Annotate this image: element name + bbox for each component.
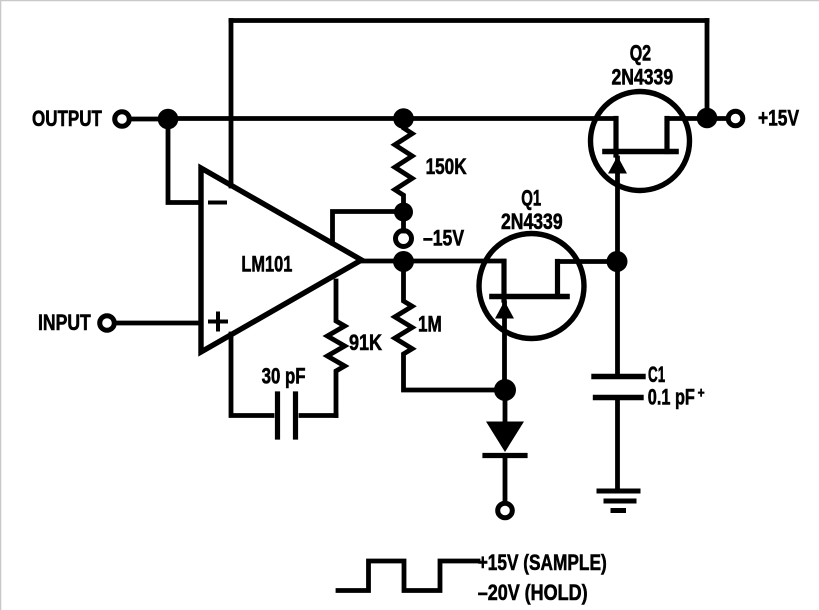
svg-text:2N4339: 2N4339 xyxy=(612,66,674,90)
wire feedback top rail xyxy=(231,18,707,23)
diode CR1 anode lead xyxy=(503,390,508,421)
svg-text:Q2: Q2 xyxy=(630,42,651,66)
svg-text:0.1 pF: 0.1 pF xyxy=(648,385,695,410)
capacitor C1 bottom plate xyxy=(596,395,642,400)
wire C1 to ground xyxy=(615,398,620,490)
svg-text:1M: 1M xyxy=(418,313,442,338)
node output junction xyxy=(158,109,179,130)
ground bar 2 xyxy=(606,499,634,504)
Q2 left bar xyxy=(613,119,618,156)
terminal -15V xyxy=(396,231,412,247)
wire output rail xyxy=(168,116,616,121)
wire 30pF to 91K xyxy=(301,413,336,418)
node gate-diode junction xyxy=(494,379,516,401)
waveform sample-hold control xyxy=(338,561,478,591)
svg-text:+15V: +15V xyxy=(758,107,800,131)
wire Q2 to +15V node xyxy=(667,116,707,121)
wire op-amp to 30pF xyxy=(231,334,272,416)
node hold junction xyxy=(607,251,628,272)
svg-text:+: + xyxy=(698,384,705,401)
wire hold node to C1 xyxy=(615,260,620,374)
page border top edge xyxy=(0,0,819,2)
svg-text:–15V: –15V xyxy=(423,227,465,251)
wire feedback right drop to +15V node xyxy=(705,21,710,119)
diode CR1 triangle xyxy=(486,422,524,453)
terminal -15V stem xyxy=(401,212,406,231)
op-amp U1 LM101 xyxy=(201,168,362,352)
ground bar 3 xyxy=(613,508,624,513)
svg-text:Q1: Q1 xyxy=(521,186,541,211)
terminal +15V xyxy=(728,111,743,126)
node 150K bottom junction xyxy=(394,203,413,222)
wire feedback left drop to op-amp top edge xyxy=(229,21,234,187)
wire OUTPUT lead xyxy=(131,117,168,122)
node 150K top junction xyxy=(393,108,414,129)
Q2 gate arrow xyxy=(608,156,627,174)
transistor Q2 body xyxy=(591,92,690,191)
svg-text:OUTPUT: OUTPUT xyxy=(32,107,102,132)
op-amp plus sign xyxy=(210,314,226,330)
svg-text:30 pF: 30 pF xyxy=(262,364,306,389)
capacitor 30pF left plate xyxy=(275,394,280,437)
wire op-amp output xyxy=(361,259,504,264)
svg-text:+15V (SAMPLE): +15V (SAMPLE) xyxy=(478,551,607,575)
Q1 left bar xyxy=(501,262,506,301)
Q2 right bar xyxy=(664,119,669,152)
wire Q1 drain xyxy=(558,259,618,264)
svg-text:91K: 91K xyxy=(349,332,383,356)
resistor 1M xyxy=(395,262,505,391)
diode CR1 cathode bar xyxy=(485,453,525,458)
Q2 gate line xyxy=(615,158,620,260)
Q1 right bar xyxy=(555,262,560,297)
Q1 gate line xyxy=(502,303,507,390)
wire comp to op-amp top edge xyxy=(333,212,404,244)
diode CR1 cathode lead xyxy=(503,456,508,503)
wire +15V lead xyxy=(707,116,728,121)
capacitor C1 top plate xyxy=(594,374,643,379)
wire inverting input xyxy=(168,119,199,203)
resistor 91K xyxy=(327,281,344,416)
terminal control input xyxy=(498,503,513,518)
terminal OUTPUT xyxy=(115,112,130,127)
svg-text:C1: C1 xyxy=(648,363,665,387)
wire noninverting input xyxy=(116,321,201,326)
capacitor 30pF right plate xyxy=(293,394,298,437)
Q1 channel bar xyxy=(492,294,567,300)
Q1 gate arrow xyxy=(495,301,514,319)
op-amp minus sign xyxy=(210,201,225,205)
ground bar 1 xyxy=(599,489,638,494)
svg-text:150K: 150K xyxy=(426,155,468,180)
terminal INPUT xyxy=(100,316,115,331)
svg-text:LM101: LM101 xyxy=(241,252,292,277)
Q2 channel bar xyxy=(605,149,676,155)
svg-text:INPUT: INPUT xyxy=(38,311,91,335)
svg-text:–20V (HOLD): –20V (HOLD) xyxy=(478,581,588,605)
node +15V junction xyxy=(697,108,718,129)
page border left edge xyxy=(0,0,2,610)
node output-1M junction xyxy=(393,251,414,272)
resistor 150K xyxy=(395,119,412,213)
transistor Q1 body xyxy=(479,234,584,339)
